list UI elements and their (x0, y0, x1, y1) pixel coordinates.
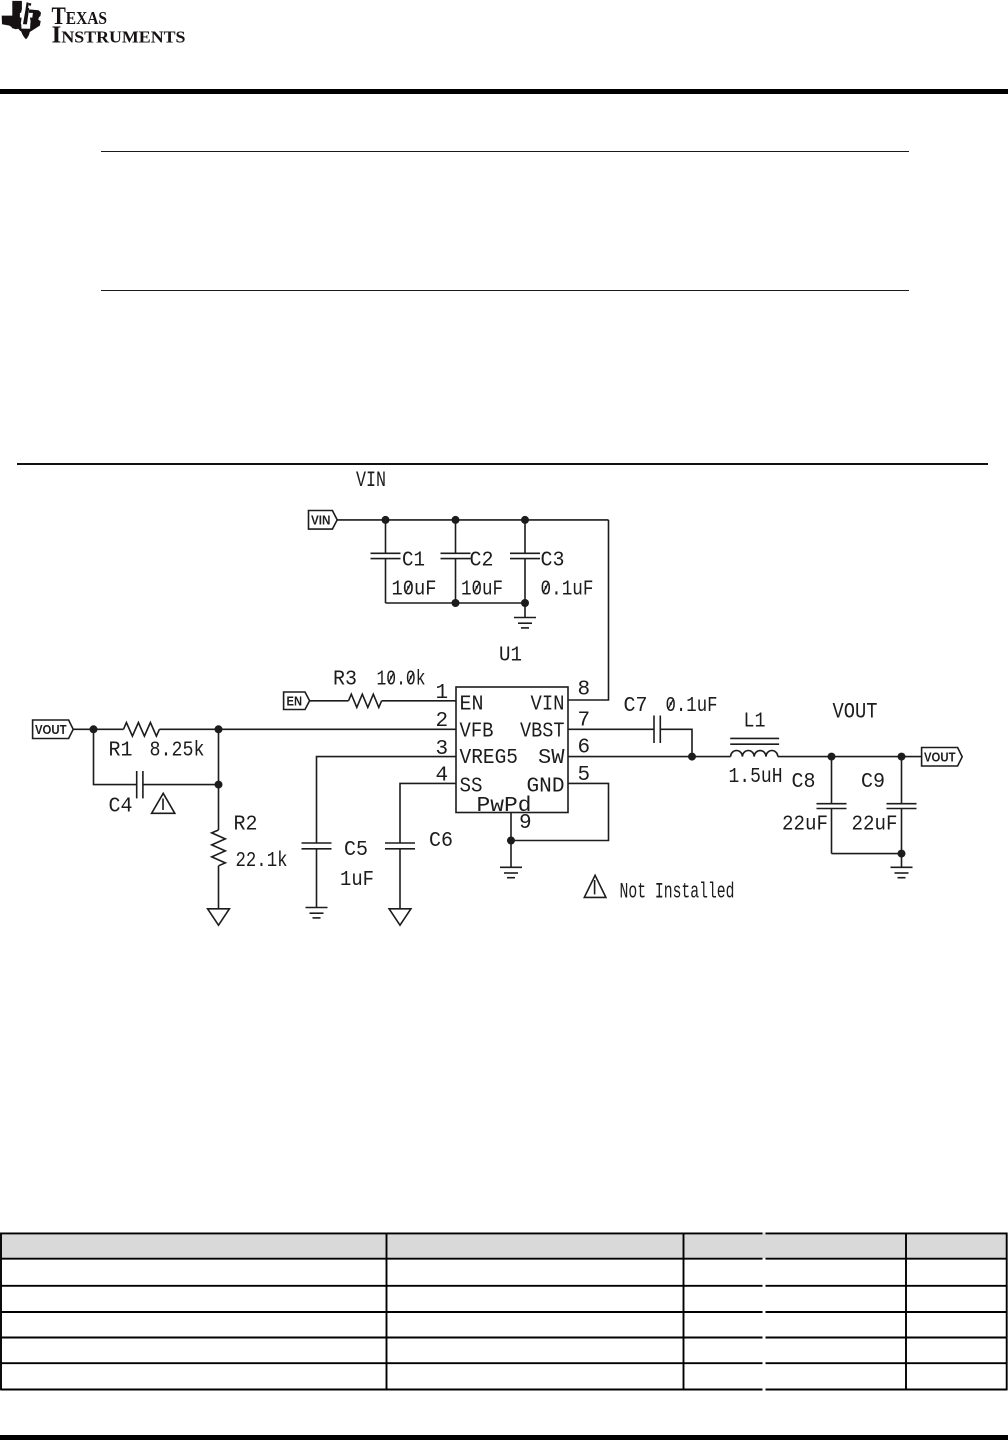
wire VOUT tag to R1 (73, 728, 123, 730)
wire R2 to arrow ground (218, 866, 220, 909)
svg-text:C6: C6 (429, 830, 453, 853)
svg-text:1uF: 1uF (340, 869, 374, 892)
svg-text:22uF: 22uF (782, 814, 828, 837)
svg-text:EN: EN (460, 694, 484, 717)
wire pin 7 to C7 (568, 728, 654, 730)
wire pin 6 SW to L1 (568, 756, 731, 758)
node junction SW-C8 (828, 753, 836, 761)
resistor R3 (333, 669, 426, 708)
node junction VIN-C3 (521, 516, 529, 524)
section divider above schematic (17, 463, 988, 465)
ground under U1 (500, 841, 522, 878)
node junction VOUT-C4 (90, 725, 98, 733)
svg-text:1.5uH: 1.5uH (729, 766, 783, 789)
svg-text:VOUT: VOUT (833, 699, 878, 725)
svg-text:GND: GND (527, 775, 565, 798)
ground under C5 (306, 908, 328, 918)
svg-text:VOUT: VOUT (35, 722, 67, 737)
svg-text:VBST: VBST (520, 721, 565, 744)
svg-text:VIN: VIN (356, 467, 386, 493)
TEXAS INSTRUMENTS wordmark (52, 3, 186, 49)
header bar (0, 89, 1008, 94)
capacitor C2 (441, 520, 504, 603)
SCHEMATIC SVG (0, 460, 1008, 940)
svg-text:4: 4 (436, 765, 449, 788)
capacitor C6 (385, 830, 453, 909)
svg-text:C8: C8 (792, 771, 816, 794)
svg-text:Not Installed: Not Installed (620, 880, 735, 905)
svg-text:C5: C5 (344, 839, 368, 862)
not-installed legend triangle (584, 875, 606, 897)
svg-text:VREG5: VREG5 (460, 747, 519, 770)
capacitor C4 (109, 771, 143, 819)
svg-text:0.1uF: 0.1uF (541, 579, 594, 602)
net tag VOUT (left) (33, 720, 74, 739)
capacitor C8 (782, 757, 847, 854)
black italic i stem (23, 8, 29, 25)
svg-text:0.1uF: 0.1uF (666, 695, 718, 718)
node junction VIN-C1 (382, 516, 390, 524)
svg-text:22uF: 22uF (852, 814, 898, 837)
svg-text:C1: C1 (402, 550, 425, 573)
inductor L1 (729, 711, 783, 790)
capacitor C9 (852, 757, 917, 854)
wire C4 branch left (94, 729, 137, 784)
svg-text:R2: R2 (234, 814, 258, 837)
thin rule 2 (101, 290, 909, 292)
resistor R1 (109, 723, 205, 763)
ground under C9 (891, 854, 913, 878)
node junction C4-R2 (215, 781, 223, 789)
svg-text:VIN: VIN (311, 513, 331, 528)
net tag VIN (309, 511, 338, 530)
wire input cap bottom rail (386, 602, 526, 604)
wire pin 5 GND route (511, 783, 609, 840)
wire EN to R3 (310, 700, 349, 702)
svg-text:C7: C7 (624, 695, 648, 718)
slashed zeros overlay (389, 583, 673, 708)
svg-text:8: 8 (578, 679, 591, 702)
svg-text:VIN: VIN (531, 694, 565, 717)
svg-text:Instruments: Instruments (52, 23, 186, 49)
capacitor C5 (302, 839, 375, 908)
thin rule 1 (101, 151, 909, 153)
texas state shape (2, 1, 41, 39)
open-arrow ground under R2 (208, 909, 230, 925)
svg-text:U1: U1 (499, 645, 522, 668)
wire VIN rail (337, 519, 608, 521)
wire VFB node down (218, 729, 220, 830)
TI logo (0, 0, 220, 60)
node junction C9 bottom (898, 850, 906, 858)
node junction VIN-C2 (452, 516, 460, 524)
svg-text:C4: C4 (109, 796, 133, 819)
vertical lines (0, 1233, 2, 1391)
wire pin 9 stub (510, 813, 512, 841)
ground under C3 (514, 603, 536, 628)
wire C8-C9 bottom rail (832, 853, 902, 855)
capacitor C3 (510, 520, 594, 603)
svg-text:3: 3 (436, 738, 449, 761)
horizontal lines with gap at x=762.5..765.5 (1, 1233, 1007, 1389)
svg-text:1: 1 (436, 682, 449, 705)
svg-text:R1: R1 (109, 740, 133, 763)
not-installed triangle at C4 (152, 793, 175, 813)
resistor R2 (212, 814, 288, 874)
wire R3 to pin 1 (382, 700, 456, 702)
node junction C3 bottom (521, 599, 529, 607)
wire L1 to VOUT tag (778, 756, 922, 758)
svg-text:10uF: 10uF (392, 579, 437, 602)
svg-text:SW: SW (538, 747, 565, 770)
svg-text:C9: C9 (861, 771, 885, 794)
white ti carve (20, 8, 33, 29)
wire pin 4 to C6 (400, 783, 456, 843)
svg-text:10.0k: 10.0k (377, 669, 426, 692)
svg-text:VFB: VFB (460, 721, 494, 744)
svg-text:22.1k: 22.1k (236, 850, 288, 873)
svg-text:10uF: 10uF (461, 579, 503, 602)
node junction pin9-GND (507, 837, 515, 845)
capacitor C1 (371, 520, 437, 603)
svg-text:8.25k: 8.25k (150, 740, 205, 763)
svg-text:2: 2 (436, 710, 449, 733)
svg-text:C2: C2 (470, 550, 494, 573)
black t ascender tip (26, 2, 29, 8)
footer bar (0, 1435, 1008, 1440)
svg-text:9: 9 (519, 812, 532, 835)
bottom table (0, 1225, 1008, 1400)
node junction VFB (215, 725, 223, 733)
svg-text:EN: EN (287, 693, 303, 708)
wire C4 to R2 node (143, 784, 219, 786)
IC U1 body (456, 687, 568, 818)
node junction C2 bottom (452, 599, 460, 607)
node junction SW-C9 (898, 753, 906, 761)
svg-text:L1: L1 (744, 711, 766, 734)
wire R1 to pin 2 (159, 728, 456, 730)
net tag VOUT (right) (922, 748, 963, 767)
black i dot (29, 3, 32, 6)
table header fill (1, 1233, 1007, 1259)
node junction C7-SW (688, 753, 696, 761)
net tag EN (284, 692, 310, 710)
open-arrow ground under C6 (389, 909, 411, 925)
wire VIN rail to pin 8 (568, 520, 609, 700)
svg-text:VOUT: VOUT (924, 750, 956, 765)
svg-text:C3: C3 (541, 550, 565, 573)
capacitor C7 (624, 695, 718, 743)
wire pin 3 to C5 (317, 757, 457, 843)
wire C7 to SW (660, 729, 692, 756)
svg-text:R3: R3 (333, 669, 357, 692)
